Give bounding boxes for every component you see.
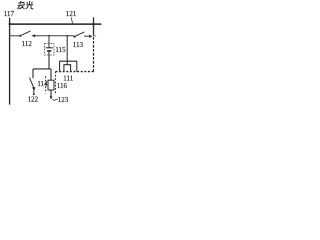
switch S113 contact dot — [74, 36, 76, 38]
switch S114 lower terminal — [33, 91, 35, 95]
switch S112 contact dot — [19, 35, 21, 37]
switch S113 blade — [76, 32, 85, 36]
wire: down to switch 114 — [32, 69, 34, 78]
wire: battery negative lead down — [48, 51, 50, 69]
svg-text:116: 116 — [57, 82, 68, 90]
title 发 (hand-drawn glyph) — [17, 1, 24, 9]
title 光 (hand-drawn glyph) — [26, 1, 34, 9]
svg-text:123: 123 — [58, 96, 69, 104]
svg-text:113: 113 — [73, 41, 84, 49]
battery B115 long plate — [46, 47, 53, 49]
wire: middle row from left bus — [10, 35, 20, 37]
battery B115 dashed enclosure — [45, 44, 54, 55]
svg-text:114: 114 — [37, 80, 48, 88]
leader squiggle from 123 — [53, 99, 58, 101]
junction: right top crossing — [92, 23, 95, 26]
lamp 111 outer housing — [60, 61, 77, 71]
svg-text:115: 115 — [55, 46, 66, 54]
wire: horizontal dashed linkage — [56, 71, 94, 73]
wire: right vertical dashed linkage — [93, 33, 95, 72]
wire: tap down to battery 115 — [48, 36, 50, 48]
switch S114 arrowhead — [32, 87, 35, 91]
junction: left top corner — [9, 23, 11, 25]
svg-text:112: 112 — [22, 40, 33, 48]
switch S114 blade — [29, 78, 33, 88]
wire: middle row continues — [35, 35, 74, 37]
junction on middle row at battery tap — [48, 35, 50, 37]
svg-text:121: 121 — [66, 10, 77, 18]
wire: left vertical bus — [9, 18, 11, 105]
switch S112 arrowhead — [31, 34, 35, 37]
junction on middle row at lamp tap — [66, 35, 68, 37]
wire: down from junction to resistor 116 — [50, 69, 52, 80]
svg-text:117: 117 — [4, 10, 15, 18]
wire: resistor bottom lead — [50, 90, 52, 96]
wire: right vertical (solid upper part) — [93, 17, 95, 33]
wire: top horizontal bus — [9, 23, 101, 25]
svg-text:122: 122 — [28, 96, 39, 104]
resistor R116 body — [48, 80, 54, 90]
terminal dot below switch 114 — [33, 93, 35, 95]
lamp 111 inner cap — [64, 65, 71, 72]
wire: horizontal link to switch 114 — [33, 68, 51, 70]
tick right of linkage at switch 113 — [94, 35, 97, 37]
switch S112 blade — [21, 31, 30, 35]
switch S113 arrowhead — [89, 35, 93, 38]
arrowhead at bottom lead — [50, 96, 53, 99]
wire: dashed vertical left of box 116 — [45, 76, 47, 93]
battery B115 short plate — [47, 50, 51, 52]
wire: tap down to lamp 111 — [66, 36, 68, 65]
leader from 121 to top bus — [71, 17, 72, 23]
wire: dashed vertical right of box 116 — [55, 72, 57, 94]
switch S113 actuation wire — [84, 35, 89, 37]
